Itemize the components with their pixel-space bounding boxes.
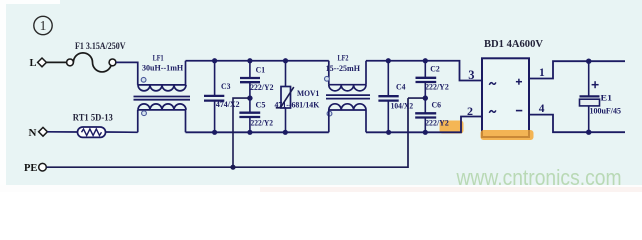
inductor LF1 label: [153, 52, 164, 62]
wire midpoint C1C5 to PE: [233, 98, 250, 167]
terminal N: [39, 127, 48, 136]
label C2: [430, 64, 440, 74]
svg-text:4: 4: [539, 103, 545, 115]
svg-text:104/X2: 104/X2: [391, 101, 414, 111]
wire midpoint C2C6 to PE: [408, 97, 425, 99]
label C1: [256, 65, 266, 75]
label MOV1: [297, 88, 319, 98]
svg-text:222/Y2: 222/Y2: [425, 118, 449, 128]
terminal L: [38, 58, 47, 67]
wire LF1 top right vertical: [185, 61, 187, 85]
pin 2 label: [467, 104, 473, 118]
node PE label: [24, 163, 37, 174]
svg-text:222/Y2: 222/Y2: [425, 82, 449, 92]
wire LF2 top right vertical: [365, 61, 367, 85]
value label RT1 5D-13: [73, 113, 113, 123]
junction C2 top: [423, 58, 428, 63]
junction C1 C5 midpoint: [247, 95, 252, 100]
svg-text:222/Y2: 222/Y2: [250, 82, 273, 92]
thermistor RT1: [78, 127, 106, 137]
pin 4 label: [539, 103, 545, 115]
label C4: [396, 82, 406, 92]
svg-text:N: N: [29, 127, 37, 139]
capacitor C5: [239, 98, 260, 132]
wire bridge pin4 to DC- rail: [529, 115, 625, 133]
wire LF2 bottom left vertical: [328, 110, 330, 132]
choke LF2 bottom winding: [327, 104, 366, 116]
pin 3 label: [468, 68, 474, 82]
choke LF2 top winding: [325, 76, 367, 91]
wire LF1 bottom right vertical: [185, 110, 187, 132]
node N label: [29, 127, 37, 139]
value label 222/Y2 C2: [425, 82, 449, 92]
svg-text:3: 3: [468, 68, 474, 82]
inductor LF2 label: [338, 52, 349, 62]
svg-text:474/X2: 474/X2: [216, 99, 240, 109]
orange highlight on pin2 wire: [440, 121, 464, 134]
svg-text:E1: E1: [601, 93, 613, 103]
junction MOV1 top: [283, 58, 288, 63]
wire RT1 to LF1: [106, 131, 138, 133]
wire PE rail: [46, 98, 408, 167]
junction C6 bottom: [423, 130, 428, 135]
junction E1 top: [586, 59, 591, 64]
svg-text:471--681/14K: 471--681/14K: [275, 100, 320, 110]
pin 1 label: [539, 67, 545, 79]
capacitor C1: [240, 61, 260, 98]
varistor MOV1: [276, 61, 294, 133]
label C5: [256, 100, 267, 110]
choke LF1 top winding: [138, 77, 186, 91]
svg-text:C2: C2: [430, 64, 440, 74]
bridge rectifier BD1: [482, 58, 529, 137]
value label 104/X2: [391, 101, 414, 111]
svg-text:www.cntronics.com: www.cntronics.com: [456, 165, 622, 190]
svg-text:C6: C6: [432, 99, 442, 109]
svg-text:BD1 4A600V: BD1 4A600V: [484, 39, 543, 50]
wire fuse to LF1: [116, 62, 138, 85]
junction C3 top: [212, 58, 217, 63]
svg-text:PE: PE: [24, 163, 37, 174]
junction C4 top: [386, 58, 391, 63]
choke LF1 core: [134, 97, 191, 100]
capacitor C4: [378, 61, 398, 133]
junction C1 top: [247, 58, 252, 63]
junction MOV1 bottom: [283, 130, 288, 135]
label C6: [432, 99, 442, 109]
label C3: [221, 81, 231, 91]
orange highlight bridge bottom: [481, 130, 534, 140]
svg-text:1: 1: [539, 67, 545, 79]
svg-text:C4: C4: [396, 82, 406, 92]
circled figure number 1: [34, 16, 52, 34]
value label 100uF/45: [590, 106, 622, 116]
terminal PE: [39, 163, 47, 171]
wire top rail left segment: [186, 60, 329, 62]
value label 15--25mH: [326, 63, 361, 73]
watermark www.cntronics.com: [456, 165, 622, 190]
value label 471--681/14K: [275, 100, 320, 110]
fuse F1: [67, 53, 116, 72]
svg-text:C5: C5: [256, 100, 267, 110]
svg-text:30uH--1mH: 30uH--1mH: [142, 63, 183, 73]
svg-text:15--25mH: 15--25mH: [326, 63, 361, 73]
svg-text:F1 3.15A/250V: F1 3.15A/250V: [75, 42, 126, 52]
svg-text:222/Y2: 222/Y2: [251, 117, 274, 127]
junction PE rail / C1C5 midpoint branch: [230, 165, 235, 170]
junction C2 C6 midpoint: [423, 95, 428, 100]
wire N rail middle segment: [186, 131, 329, 133]
wire L terminal to fuse: [46, 61, 66, 63]
svg-text:RT1 5D-13: RT1 5D-13: [73, 113, 113, 123]
junction C4 bottom: [386, 130, 391, 135]
junction C3 bottom: [212, 130, 217, 135]
svg-text:LF2: LF2: [338, 52, 349, 62]
label E1: [601, 93, 613, 103]
wire LF2 top left vertical: [328, 61, 330, 85]
svg-text:C1: C1: [256, 65, 266, 75]
value label 222/Y2 C1: [250, 82, 273, 92]
value label 474/X2: [216, 99, 240, 109]
svg-text:100uF/45: 100uF/45: [590, 106, 622, 116]
wire top rail right segment: [366, 61, 482, 81]
wire bridge pin1 to DC+ rail: [529, 61, 625, 78]
wire N terminal to RT1: [47, 131, 77, 133]
svg-text:1: 1: [40, 18, 47, 33]
wire LF2 bottom right vertical: [365, 110, 367, 132]
value label 30uH--1mH: [142, 63, 183, 73]
choke LF1 bottom winding: [138, 104, 186, 116]
capacitor C2: [416, 61, 437, 98]
svg-text:C3: C3: [221, 81, 231, 91]
capacitor C6: [415, 98, 436, 132]
svg-text:L: L: [30, 58, 37, 69]
svg-text:MOV1: MOV1: [297, 88, 319, 98]
value label 222/Y2 C6: [425, 118, 449, 128]
capacitor E1 electrolytic: [580, 61, 600, 132]
capacitor C3: [204, 61, 224, 133]
value label F1 3.15A/250V: [75, 42, 126, 52]
value label 222/Y2 C5: [251, 117, 274, 127]
wire N rail right segment: [366, 117, 482, 133]
svg-text:2: 2: [467, 104, 473, 118]
node L label: [30, 58, 37, 69]
junction C5 bottom: [247, 130, 252, 135]
choke LF2 core: [326, 95, 370, 99]
svg-text:LF1: LF1: [153, 52, 164, 62]
wire LF1 bottom left vertical: [137, 110, 139, 132]
junction E1 bottom: [586, 130, 591, 135]
label BD1 4A600V: [484, 39, 543, 50]
